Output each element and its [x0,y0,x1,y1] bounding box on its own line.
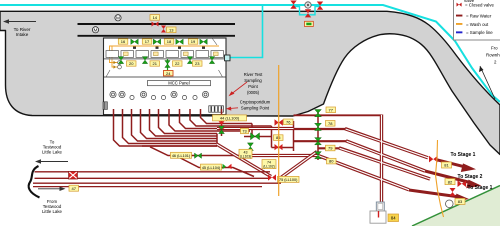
from testwood arrow [38,188,62,190]
stack valve 79 [315,138,322,145]
svg-text:44 (LL100): 44 (LL100) [220,116,240,121]
svg-text:Little Lake: Little Lake [42,150,63,155]
pump discharge pipe 4 [141,109,218,139]
label 83 [455,198,465,204]
wash out line right (orange) [436,140,444,217]
pump units row [106,51,224,58]
svg-text:16: 16 [121,39,126,44]
label 79 [326,145,336,151]
pump discharge pipe 7 [169,109,250,131]
stack valve 80 [315,152,322,159]
valve 23 [209,57,214,64]
intake sampler motor [305,2,311,8]
intake pipe 2 (black) [78,35,236,37]
pump discharge pipe 2 [123,109,218,144]
valve 16 [118,39,128,44]
svg-text:(LL103): (LL103) [240,154,251,158]
valve 85 closed red [275,144,283,150]
valve 21 [142,57,147,64]
pump discharge pipe 10 [201,109,253,124]
lower stage 1 arrow [409,190,457,197]
svg-text:Rownh: Rownh [486,53,500,58]
wash out swatch [456,23,462,25]
valve 20 [118,57,123,64]
svg-text:= Wash out: = Wash out [466,22,489,27]
manifold vertical a [251,124,253,137]
valve 42 closed vertical [305,9,311,17]
svg-text:76: 76 [286,119,291,124]
svg-text:83: 83 [458,199,463,204]
pump house inner wall [104,76,227,78]
second stage 2 feeder [339,148,430,179]
lower stage 1 trunk [318,156,409,190]
electrical cabinet box [103,102,107,110]
pump discharge pipe 6 [159,109,218,134]
valve 22 [187,57,192,64]
collector to bus diagonal [217,144,272,177]
svg-text:22: 22 [175,61,180,66]
label 44 (LL100) [213,115,247,121]
svg-text:To Stage 1: To Stage 1 [451,152,476,158]
to river intake arrow [6,21,36,23]
label 85 [274,135,284,141]
label 43 [239,149,252,158]
green boundary bottom right [412,186,500,227]
svg-text:(0005): (0005) [247,90,260,95]
outfall lane [294,114,382,116]
stack valve 77 [315,110,322,117]
valve 24 (vertical, center) [167,59,169,71]
svg-text:Fro: Fro [491,46,498,51]
sample line vertical to pump house [230,6,263,58]
svg-text:14: 14 [153,15,158,20]
stage 1 arrow [437,160,466,167]
river test leader arrow [230,82,247,95]
pump header line [104,58,226,60]
valve 81 closed [429,156,438,163]
testwood return pipe double line [33,182,281,184]
outfall sampler 84 [376,202,384,211]
manifold vertical b [271,126,273,148]
stage 2 arrow [425,171,470,183]
valve 47 (closed cross) [69,171,78,179]
valve 18 [164,39,174,44]
valve 82 closed [458,180,467,187]
stack manifold vertical [317,111,319,160]
sample line (cyan) along top and river edge [0,5,500,102]
land mass (gray) [0,11,500,154]
label 78 [326,121,336,127]
motor circles row [110,91,209,99]
feeder lane [318,147,340,149]
sample line outlet box on right wall [225,55,231,61]
valve 75 closed red [268,174,276,180]
svg-text:Intake: Intake [16,32,29,37]
label 82 [445,179,455,185]
label 84 [388,214,399,222]
pipe break brace [29,166,40,198]
svg-text:= Sample line: = Sample line [466,30,493,35]
legend box [454,0,500,40]
svg-text:81: 81 [444,163,449,168]
manifold lane 74 [244,136,272,138]
raw water swatch [456,15,462,17]
svg-text:21: 21 [152,61,157,66]
label 75 (LL100) [278,176,300,182]
diagonal feeder 46 [150,147,318,156]
pump connector tags [124,52,219,56]
label 45 (LL104) [201,164,222,170]
svg-text:80: 80 [329,159,334,164]
svg-text:82: 82 [448,179,453,184]
stack valve 78 [315,123,322,130]
svg-text:13: 13 [169,27,174,32]
diagonal feeder 45 [176,156,255,177]
svg-text:23: 23 [195,61,200,66]
valve 39 closed vertical [317,2,323,10]
collector vertical [216,134,218,145]
svg-text:84: 84 [391,216,396,221]
valve 45 green [223,164,227,169]
svg-text:79: 79 [328,146,333,151]
to testwood arrow [38,161,69,163]
manifold lane 85 [272,147,294,149]
svg-text:45 (LL104): 45 (LL104) [202,166,221,170]
pump discharge pipe 3 [132,109,218,141]
label 76 [284,119,294,125]
svg-text:20: 20 [129,61,134,66]
to river intake text [14,27,31,37]
label 80 [327,158,337,164]
double-line trunk pipes [217,115,431,203]
valve 13 (closed, vertical between pipes) [161,26,166,33]
valve 17 [142,39,152,44]
wash out line left (orange) [278,65,280,196]
svg-text:73: 73 [242,130,246,134]
valve 44 closed (red) [219,121,225,129]
svg-text:(LL102): (LL102) [263,165,274,169]
svg-text:= Raw Water: = Raw Water [466,13,492,18]
label 73 small [241,128,249,133]
svg-text:To Stage 2: To Stage 2 [458,174,483,180]
label 77 [326,107,336,113]
svg-text:18: 18 [167,39,172,44]
svg-text:= Closed valve: = Closed valve [465,2,494,7]
actuator marks above pumps [133,47,205,49]
cryptosporidium sampling box [209,106,224,112]
svg-text:24: 24 [166,71,171,76]
valve 46 green [195,153,202,158]
valve 83 closed [450,188,456,196]
from testwood text [42,199,63,214]
valve 76 closed (red bowtie) [275,119,283,125]
washout gauge circles [118,61,122,65]
wash out loop (orange) in pump house [110,46,220,63]
label 81 [442,162,452,168]
label 40 [305,21,314,26]
header lane [142,145,217,147]
closed valve symbol [457,3,462,7]
svg-text:19: 19 [191,39,196,44]
MCC panel [148,81,211,86]
svg-text:75 (LL100): 75 (LL100) [279,178,298,182]
wash out pond circle [446,200,454,208]
outfall drop pipe [380,115,383,203]
manifold doubled lanes [217,129,318,156]
door marks [106,70,110,77]
svg-text:Cryptosporidium: Cryptosporidium [240,100,271,105]
pump discharge pipe 5 [150,109,218,136]
cyan sample loop [294,7,320,15]
svg-text:47: 47 [71,186,76,191]
svg-text:To Stage 1: To Stage 1 [468,185,493,191]
valve 19 [188,39,198,44]
manifold vertical c [293,121,295,151]
svg-text:River Test: River Test [244,72,263,77]
sampling riser pipe 44 [221,109,223,136]
intake pipe 1 (black) [78,23,236,25]
stage 1 trunk [345,129,428,158]
from rownhams text [486,46,500,65]
svg-text:46 (LL101): 46 (LL101) [172,154,191,158]
stage 2 lane [294,140,348,142]
svg-text:78: 78 [328,121,333,126]
valve 41 closed vertical [290,1,296,9]
svg-text:Point: Point [248,84,258,89]
motor M on pipe 2 [92,27,98,33]
cryptosporidium sampling point text [240,100,271,111]
stage 1 lane [294,128,347,130]
svg-text:17: 17 [145,39,150,44]
motor M on pipe 1 [115,15,121,21]
sample line swatch [456,31,462,33]
pump discharge pipe 8 [180,109,294,129]
pump discharge pipe 1 [114,109,218,146]
rownhams flow arrow [480,66,495,99]
pump discharge pipe 9 [190,109,272,126]
valve 74 green (bowtie) [251,133,260,140]
to testwood text [42,140,63,155]
label 47 [69,185,79,191]
crypto leader arrow [228,107,238,110]
single trunk lanes [294,115,382,148]
svg-text:M: M [116,16,120,22]
label 46 (LL101) [171,152,192,158]
valve 76 riser stub [278,124,280,129]
testwood pipe (to little lake) double line [33,172,281,187]
svg-text:M: M [94,28,98,34]
stage 2 trunk [346,141,425,171]
label 74 (LL102) [262,160,276,169]
svg-text:Little Lake: Little Lake [42,209,63,214]
bus riser to stack [281,152,317,178]
valve 44 green [219,126,225,134]
valve 43 green [247,143,253,151]
valve 14 (closed, on intake pipe 1) [152,22,159,27]
pump house building [104,38,227,115]
svg-text:Sampling Point: Sampling Point [241,106,270,111]
svg-text:MCC Panel: MCC Panel [168,81,189,86]
river test sampling point text [244,72,263,95]
svg-text:77: 77 [328,107,333,112]
valve 45 red [228,164,232,169]
